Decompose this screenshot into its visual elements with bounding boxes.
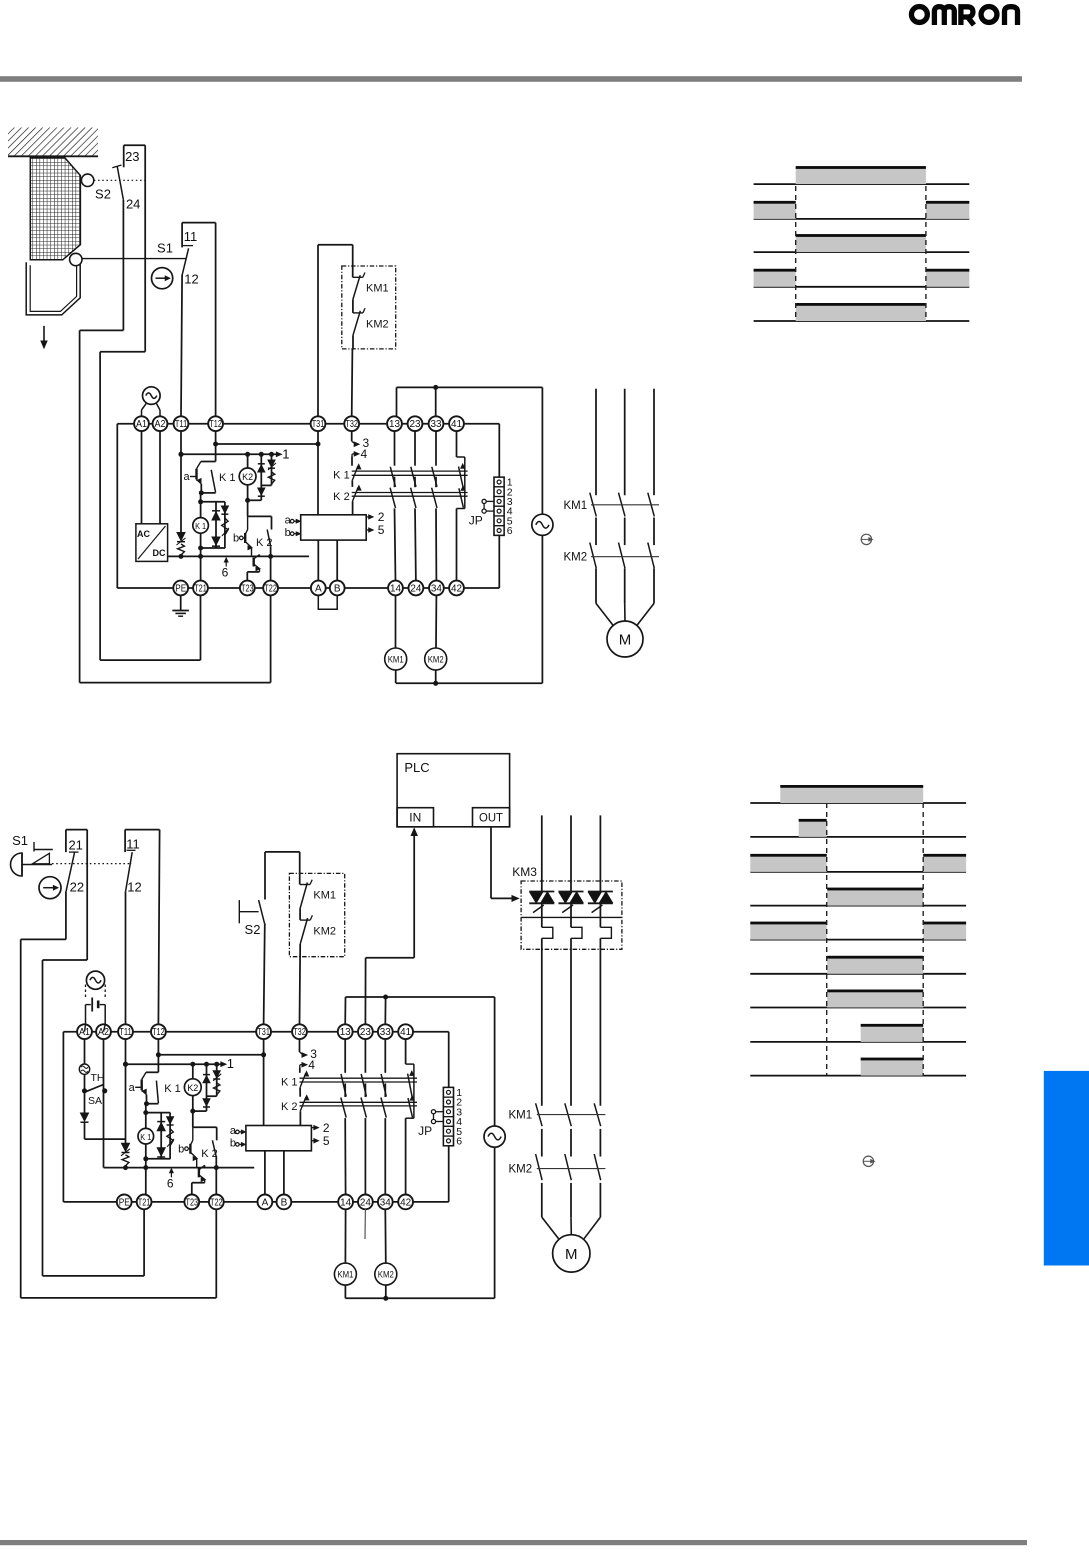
svg-text:IN: IN <box>409 811 421 825</box>
svg-text:B: B <box>334 584 341 595</box>
svg-text:1: 1 <box>227 1056 234 1071</box>
svg-text:S2: S2 <box>245 922 261 937</box>
svg-text:KM2: KM2 <box>428 655 444 665</box>
svg-text:14: 14 <box>390 584 401 595</box>
svg-text:PE: PE <box>119 1197 130 1208</box>
svg-text:11: 11 <box>126 837 140 852</box>
svg-text:41: 41 <box>400 1027 411 1038</box>
svg-text:b: b <box>178 1143 184 1155</box>
svg-text:4: 4 <box>361 447 368 461</box>
svg-text:24: 24 <box>126 197 140 212</box>
svg-text:KM1: KM1 <box>366 283 389 295</box>
svg-text:KM1: KM1 <box>313 890 336 902</box>
svg-text:KM2: KM2 <box>378 1270 394 1280</box>
svg-text:A: A <box>315 584 322 595</box>
svg-text:T11: T11 <box>175 419 188 430</box>
svg-text:5: 5 <box>323 1134 330 1148</box>
svg-text:12: 12 <box>127 880 141 895</box>
svg-text:K 1: K 1 <box>164 1083 181 1095</box>
svg-text:DC: DC <box>153 548 166 558</box>
svg-text:T12: T12 <box>152 1027 165 1038</box>
svg-text:A2: A2 <box>155 419 166 430</box>
svg-text:S1: S1 <box>157 241 173 256</box>
svg-text:34: 34 <box>431 584 442 595</box>
svg-text:K2: K2 <box>242 472 253 482</box>
svg-text:KM3: KM3 <box>512 865 537 879</box>
svg-text:33: 33 <box>380 1027 391 1038</box>
svg-text:K 2: K 2 <box>281 1101 298 1113</box>
svg-text:b: b <box>285 527 291 539</box>
svg-text:2: 2 <box>378 510 385 524</box>
svg-text:14: 14 <box>340 1197 351 1208</box>
svg-text:2: 2 <box>323 1121 330 1135</box>
svg-text:KM1: KM1 <box>509 1110 533 1122</box>
svg-text:T31: T31 <box>257 1027 270 1038</box>
svg-text:K 1: K 1 <box>333 470 350 482</box>
svg-text:23: 23 <box>410 419 421 430</box>
svg-text:23: 23 <box>360 1027 371 1038</box>
svg-text:b: b <box>230 1138 236 1150</box>
svg-text:21: 21 <box>68 838 82 853</box>
svg-text:22: 22 <box>70 880 84 895</box>
svg-text:24: 24 <box>360 1197 371 1208</box>
svg-text:T32: T32 <box>293 1027 306 1038</box>
svg-text:24: 24 <box>410 584 421 595</box>
svg-text:6: 6 <box>222 566 229 580</box>
svg-text:a: a <box>129 1082 136 1094</box>
svg-text:OUT: OUT <box>479 811 504 825</box>
svg-text:B: B <box>281 1197 288 1208</box>
svg-text:K2: K2 <box>187 1083 198 1093</box>
svg-text:T21: T21 <box>194 584 207 595</box>
svg-text:S1: S1 <box>12 833 28 848</box>
svg-text:KM1: KM1 <box>337 1270 353 1280</box>
svg-text:KM1: KM1 <box>388 655 404 665</box>
svg-text:K 1: K 1 <box>219 472 236 484</box>
svg-text:M: M <box>619 632 632 649</box>
svg-text:SA: SA <box>88 1095 102 1107</box>
svg-text:AC: AC <box>137 529 150 539</box>
svg-text:34: 34 <box>380 1197 391 1208</box>
svg-text:KM2: KM2 <box>366 319 389 331</box>
svg-text:T11: T11 <box>119 1027 132 1038</box>
svg-text:K 1: K 1 <box>140 1132 151 1142</box>
svg-text:KM2: KM2 <box>509 1164 533 1176</box>
svg-text:K 1: K 1 <box>195 521 206 531</box>
svg-text:KM2: KM2 <box>313 926 336 938</box>
svg-text:K 2: K 2 <box>333 491 350 503</box>
svg-text:13: 13 <box>340 1027 351 1038</box>
svg-text:b: b <box>233 533 239 545</box>
svg-text:T23: T23 <box>241 584 254 595</box>
svg-text:13: 13 <box>389 419 400 430</box>
svg-text:JP: JP <box>418 1124 432 1138</box>
svg-text:T21: T21 <box>138 1197 151 1208</box>
svg-text:PLC: PLC <box>404 760 429 775</box>
svg-text:5: 5 <box>378 523 385 537</box>
svg-text:42: 42 <box>400 1197 411 1208</box>
svg-text:42: 42 <box>451 584 462 595</box>
svg-text:A: A <box>262 1197 269 1208</box>
svg-text:T12: T12 <box>209 419 222 430</box>
svg-text:K 2: K 2 <box>201 1148 218 1160</box>
svg-text:6: 6 <box>167 1176 174 1190</box>
svg-text:4: 4 <box>308 1058 315 1072</box>
svg-text:6: 6 <box>456 1136 462 1148</box>
svg-text:1: 1 <box>282 446 289 461</box>
svg-text:11: 11 <box>184 229 198 244</box>
svg-text:T31: T31 <box>312 419 325 430</box>
svg-text:T22: T22 <box>264 584 277 595</box>
svg-text:K 1: K 1 <box>281 1077 298 1089</box>
svg-text:T23: T23 <box>186 1197 199 1208</box>
svg-text:S2: S2 <box>95 187 111 202</box>
svg-text:41: 41 <box>451 419 462 430</box>
svg-text:PE: PE <box>175 584 186 595</box>
svg-text:TH: TH <box>91 1072 105 1084</box>
svg-text:23: 23 <box>125 149 139 164</box>
svg-text:a: a <box>183 471 190 483</box>
svg-text:12: 12 <box>184 272 198 287</box>
svg-text:T22: T22 <box>210 1197 223 1208</box>
svg-text:6: 6 <box>507 525 513 537</box>
svg-text:JP: JP <box>469 514 483 528</box>
svg-text:A1: A1 <box>136 419 147 430</box>
svg-text:M: M <box>565 1246 578 1263</box>
svg-text:33: 33 <box>431 419 442 430</box>
svg-text:T32: T32 <box>345 419 358 430</box>
svg-text:KM1: KM1 <box>564 500 588 512</box>
svg-text:KM2: KM2 <box>564 552 588 564</box>
